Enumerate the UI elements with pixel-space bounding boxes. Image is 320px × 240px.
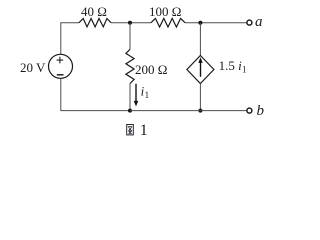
wire top-left segment xyxy=(61,23,79,55)
resistor R2 100ohm xyxy=(151,18,185,27)
wire right branch lower xyxy=(199,84,201,111)
svg-text:a: a xyxy=(255,14,263,30)
svg-text:40 Ω: 40 Ω xyxy=(81,4,107,19)
plus sign of V1 xyxy=(57,57,64,64)
terminal a open circle xyxy=(247,20,252,25)
caption figure glyph (CJK tu) xyxy=(127,125,134,135)
node junction top-right xyxy=(198,21,202,25)
node junction top-middle xyxy=(128,21,132,25)
wire right branch upper xyxy=(199,23,201,56)
minus sign of V1 xyxy=(57,74,64,76)
svg-text:1: 1 xyxy=(140,122,148,139)
wire middle branch lower xyxy=(129,84,131,111)
wire left-bottom segment xyxy=(61,78,130,110)
resistor R3 200ohm xyxy=(126,49,134,83)
svg-text:100 Ω: 100 Ω xyxy=(149,4,181,19)
node junction bottom-middle xyxy=(128,109,132,113)
wire top-right segment to terminal a xyxy=(185,22,246,24)
svg-text:20 V: 20 V xyxy=(20,60,46,75)
arrow inside dependent source xyxy=(198,57,202,77)
voltage source V1 20V xyxy=(49,54,73,78)
resistor R1 40ohm xyxy=(79,19,111,27)
terminal b open circle xyxy=(247,108,252,113)
wire top-middle segment xyxy=(111,22,151,24)
wire middle branch upper xyxy=(129,23,131,50)
wire bottom segment to terminal b xyxy=(130,110,246,112)
dependent current source diamond xyxy=(187,56,214,84)
svg-text:b: b xyxy=(257,103,265,119)
node junction bottom-right xyxy=(198,109,202,113)
svg-text:200 Ω: 200 Ω xyxy=(135,62,167,77)
current arrow i1 xyxy=(134,84,139,107)
